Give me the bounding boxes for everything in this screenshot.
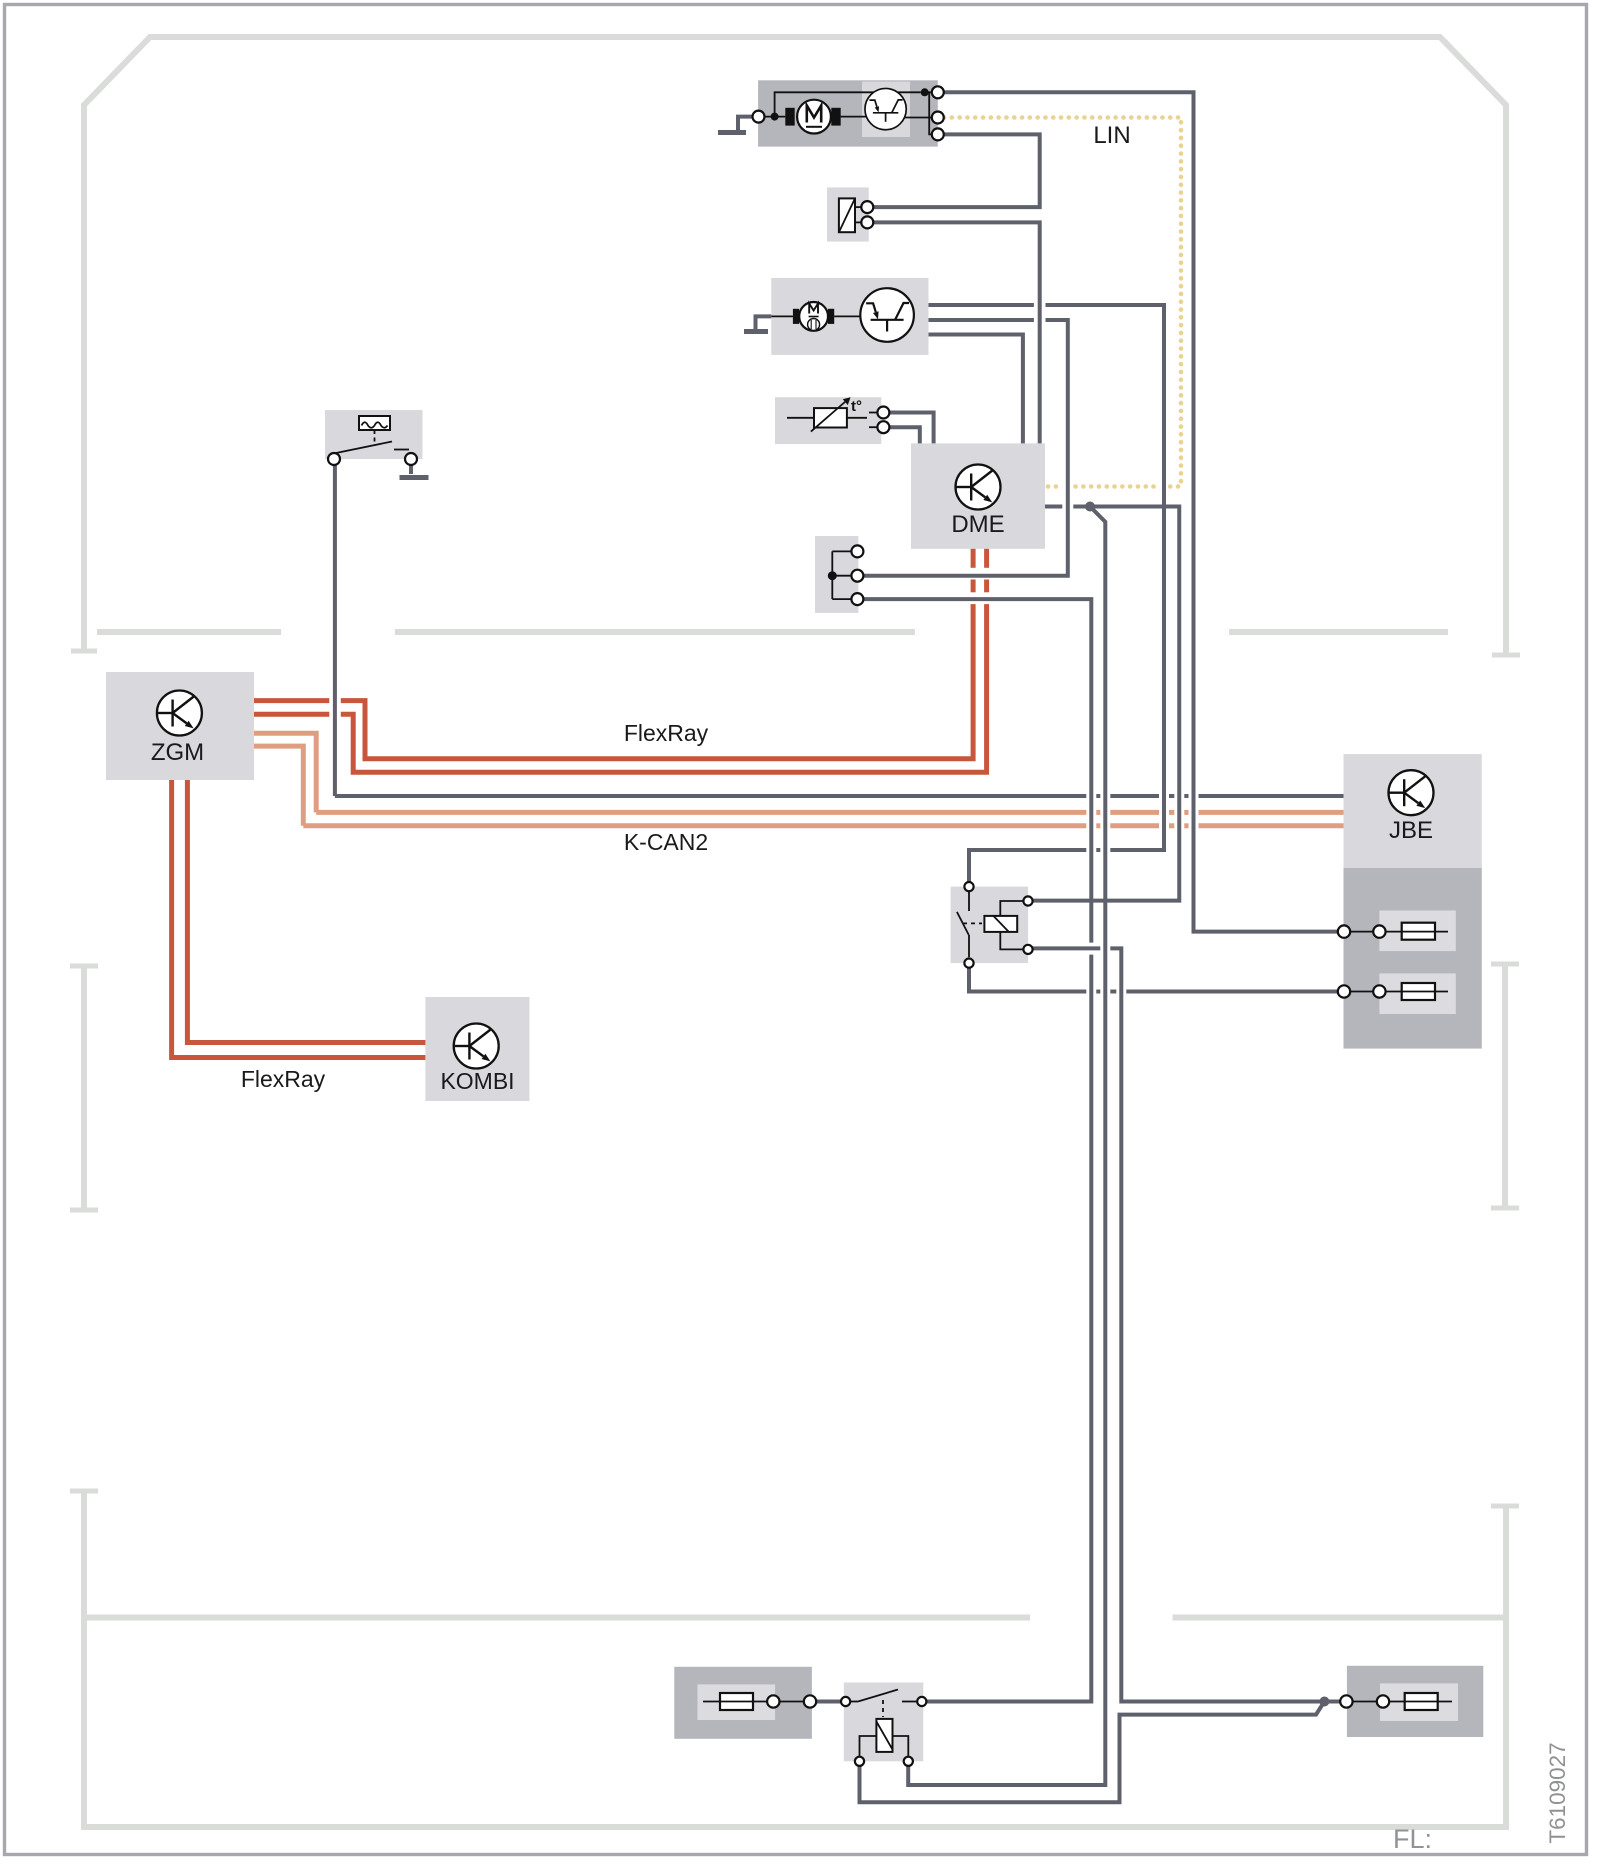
wire: vent motor wire 3 to DME [929, 335, 1023, 444]
temperature sensor terminal 2 [877, 421, 889, 433]
fan relay box [951, 887, 1029, 964]
bottom right fuse terminal b [1377, 1695, 1389, 1707]
fan module terminal 2 [932, 112, 944, 124]
JBE fuse 1 symbol [1350, 923, 1448, 940]
wire: pressure switch vertical [333, 465, 337, 796]
car body separator line y1617 [86, 1615, 1503, 1621]
pressure switch terminal 2 [405, 453, 417, 465]
crank sensor terminal 3 [851, 593, 863, 605]
wire: vent motor wire 1 stub at crossing [1096, 848, 1100, 852]
wire: fan ground lead [738, 117, 759, 130]
ground symbol: pressure switch [400, 465, 429, 477]
LIN bus dotted line [944, 118, 1181, 487]
crank sensor junction dot [828, 571, 837, 580]
bottom relay terminal left [841, 1697, 850, 1706]
wire: vent motor wire 1 to fan relay (segment 1) [929, 303, 1034, 307]
wire: solenoid valve to DME [874, 222, 1040, 443]
ZGM control unit icon [157, 691, 202, 736]
wire: vent motor wire 1 to relay terminal [969, 850, 1086, 882]
K-CAN2 bus (line 2) [254, 746, 1344, 826]
FlexRay bus ZGM to DME (line 2) [254, 549, 987, 773]
vent motor M2 [793, 302, 834, 331]
svg-text:ZGM: ZGM [151, 739, 204, 766]
svg-text:FL:: FL: [1393, 1824, 1432, 1854]
JBE box (upper) [1344, 754, 1482, 868]
KOMBI control unit icon [454, 1024, 499, 1069]
fan module terminal 1 [932, 86, 944, 98]
svg-text:LIN: LIN [1093, 122, 1130, 149]
ground symbol: vent motor module [744, 329, 768, 334]
JBE fuse 2 terminal a [1338, 985, 1350, 997]
bottom relay terminal coil b [904, 1757, 913, 1766]
fan relay terminal top [964, 882, 973, 891]
svg-text:T6109027: T6109027 [1545, 1742, 1570, 1843]
wire: pressure switch to JBE (stub a) [1096, 794, 1100, 798]
bottom relay box [844, 1683, 924, 1762]
electric fan module box (dark) [758, 80, 938, 146]
temperature sensor box [775, 397, 881, 444]
crank sensor terminal 2 [851, 570, 863, 582]
fan relay K1 internals [957, 891, 1024, 957]
wire: fan relay bottom to JBE fuse 2 (segment 2) [1126, 990, 1338, 994]
JBE control unit icon [1389, 770, 1434, 815]
JBE fuse 2 inner box [1379, 973, 1455, 1014]
wire: DME junction diagonal to bottom relay coil [908, 507, 1105, 1786]
bottom relay terminal right [917, 1697, 926, 1706]
vent motor module box [771, 278, 928, 355]
wire: vent motor wire 2 to crank sensor (segment 1) [929, 318, 1034, 322]
DME control unit box [911, 443, 1045, 548]
wire: DME output pin (left of junction) [1045, 505, 1062, 509]
bottom left fuse inner box [698, 1684, 776, 1720]
svg-text:DME: DME [951, 511, 1004, 538]
FlexRay bus ZGM to KOMBI (line 1) [172, 780, 426, 1058]
fan module internals [765, 92, 932, 134]
wire: fan relay output to bottom right fuse [1110, 948, 1340, 1701]
vent output transistor T2 [860, 288, 914, 342]
pressure switch terminal 1 [328, 453, 340, 465]
wire: vent motor wire 2 to crank sensor (segment 2) [864, 320, 1068, 576]
crankshaft sensor box [815, 536, 858, 613]
crank sensor terminal 1 [851, 545, 863, 557]
electric fan transistor sub-panel [862, 82, 910, 137]
fan module junction dot a [771, 113, 779, 121]
bottom right fuse symbol [1353, 1693, 1452, 1710]
wire: crank sensor to bottom relay (segment 2) [926, 955, 1091, 1702]
wire: fan output to JBE fuse 1 [944, 92, 1338, 931]
vent motor internals [771, 315, 860, 317]
fan module terminal 3 [932, 128, 944, 140]
wire: pressure switch to JBE (segment 1) [335, 794, 1086, 798]
pressure switch box [325, 410, 423, 459]
bottom left fuse box (dark) [674, 1667, 812, 1739]
wire: fan low terminal to solenoid valve [874, 134, 1040, 207]
wire: pressure switch to JBE (stub c) [1184, 794, 1188, 798]
ZGM box [106, 672, 254, 780]
temperature sensor terminal 1 [877, 407, 889, 419]
wire: DME output to fan relay coil [1032, 507, 1179, 901]
wire: fan relay bottom to JBE fuse 2 (stub a) [1096, 990, 1100, 994]
JBE fuse 1 inner box [1379, 911, 1455, 952]
junction dot: DME output node [1085, 502, 1095, 512]
bottom right fuse terminal a [1340, 1695, 1352, 1707]
wire: crank sensor to bottom relay (segment 1) [864, 599, 1092, 943]
svg-text:KOMBI: KOMBI [440, 1068, 514, 1094]
bottom right fuse inner box [1380, 1683, 1458, 1721]
svg-text:JBE: JBE [1389, 817, 1433, 844]
JBE fuse 2 symbol [1350, 983, 1448, 1000]
wire: bottom left fuse to bottom relay [816, 1700, 841, 1704]
wire: pressure switch to JBE (segment 3) [1199, 794, 1344, 798]
fan relay terminal coil a [1023, 896, 1032, 905]
DME control unit icon [956, 465, 1001, 510]
FlexRay bus ZGM to DME (line 1) [254, 549, 973, 759]
wire: temp sensor wire 2 to DME [890, 427, 920, 443]
fan module ground terminal [753, 111, 765, 123]
wire: fan relay output (segment 1) [1032, 946, 1100, 950]
wire: fan relay bottom to JBE fuse 2 (stub b) [1110, 990, 1116, 994]
wire: vent motor ground lead [756, 316, 772, 329]
wires (dark gray) [335, 92, 1344, 1802]
fan module junction dot b [921, 88, 929, 96]
wire: pressure switch to JBE (stub b) [1169, 794, 1174, 798]
wire: fan relay bottom to JBE fuse 2 (segment 1) [969, 968, 1086, 992]
fan relay terminal coil b [1023, 945, 1032, 954]
pressure switch internals [336, 416, 409, 453]
car body caps [70, 651, 1520, 1506]
JBE fuse carrier box (dark) [1344, 868, 1482, 1049]
fan motor M1 [785, 100, 840, 134]
solenoid valve box [827, 187, 869, 241]
JBE fuse 1 terminal a [1338, 925, 1350, 937]
bottom left fuse terminal b [804, 1695, 816, 1707]
wire: vent motor wire 1 to fan relay (segment 2) [1046, 305, 1165, 850]
solenoid valve symbol [839, 198, 861, 232]
solenoid valve terminal 2 [861, 216, 873, 228]
svg-text:FlexRay: FlexRay [624, 720, 709, 746]
bottom right fuse box (dark) [1347, 1666, 1483, 1737]
JBE fuse 2 terminal b [1373, 985, 1385, 997]
fan output transistor T1 [865, 88, 906, 129]
bottom left fuse terminal a [767, 1695, 779, 1707]
junction dot: bottom right fuse node [1319, 1697, 1329, 1707]
ground symbol: fan module [718, 130, 746, 135]
FlexRay bus ZGM to KOMBI (line 2) [187, 780, 425, 1043]
wire: pressure switch to JBE (segment 2) [1110, 794, 1159, 798]
bottom relay K2 internals [850, 1690, 917, 1758]
svg-text:K-CAN2: K-CAN2 [624, 829, 708, 855]
KOMBI box [425, 997, 529, 1101]
K-CAN2 bus (line 1) [254, 733, 1344, 812]
crank sensor internals [832, 551, 851, 599]
svg-text:FlexRay: FlexRay [241, 1066, 326, 1092]
temperature sensor symbol [787, 397, 877, 431]
svg-text:t°: t° [851, 398, 862, 415]
bottom left fuse symbol [703, 1693, 804, 1710]
car body separator line y632 [97, 629, 1448, 635]
fan relay terminal bottom [964, 959, 973, 968]
wire: temp sensor wire 1 to DME [890, 413, 934, 444]
JBE fuse 1 terminal b [1373, 925, 1385, 937]
bottom relay terminal coil a [855, 1757, 864, 1766]
solenoid valve terminal 1 [861, 201, 873, 213]
wire: bottom right fuse branch to bottom relay coil [860, 1702, 1325, 1803]
